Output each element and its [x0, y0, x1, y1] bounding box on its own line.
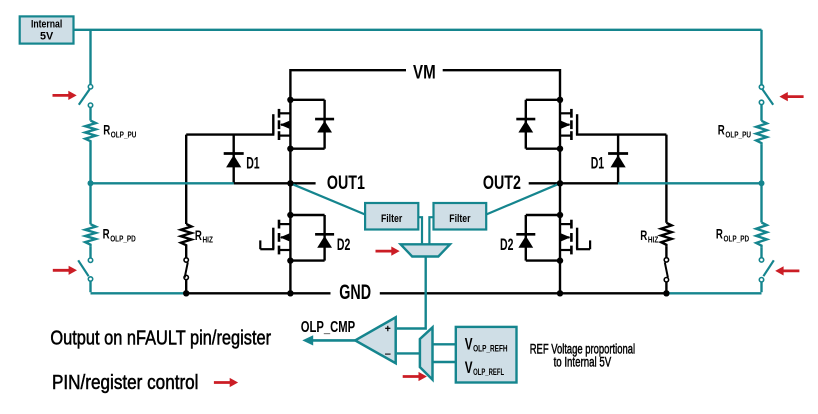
- svg-text:Output on nFAULT pin/register: Output on nFAULT pin/register: [50, 327, 271, 350]
- svg-text:R: R: [103, 227, 110, 242]
- svg-text:Filter: Filter: [381, 213, 403, 225]
- svg-text:5V: 5V: [40, 31, 54, 43]
- svg-text:OUT2: OUT2: [483, 172, 521, 194]
- svg-text:V: V: [465, 335, 473, 353]
- svg-text:D2: D2: [337, 236, 350, 254]
- svg-text:R: R: [195, 228, 202, 243]
- svg-text:R: R: [103, 123, 110, 138]
- svg-text:OLP_PU: OLP_PU: [725, 130, 751, 140]
- svg-text:HIZ: HIZ: [203, 235, 213, 245]
- svg-text:VM: VM: [413, 62, 436, 83]
- svg-text:D2: D2: [500, 236, 513, 254]
- svg-text:−: −: [385, 348, 391, 360]
- svg-text:to Internal 5V: to Internal 5V: [554, 354, 612, 369]
- svg-text:Internal: Internal: [31, 19, 62, 31]
- svg-text:Filter: Filter: [449, 213, 471, 225]
- svg-text:OLP_PU: OLP_PU: [111, 130, 137, 140]
- svg-text:R: R: [718, 123, 725, 138]
- svg-text:PIN/register control: PIN/register control: [52, 371, 199, 394]
- svg-text:R: R: [716, 227, 723, 242]
- svg-text:OLP_PD: OLP_PD: [724, 234, 750, 244]
- svg-text:R: R: [640, 228, 647, 243]
- svg-text:OLP_REFH: OLP_REFH: [473, 343, 508, 354]
- svg-text:+: +: [385, 324, 391, 335]
- svg-text:GND: GND: [339, 281, 371, 304]
- svg-text:D1: D1: [591, 155, 604, 173]
- svg-text:HIZ: HIZ: [648, 235, 658, 245]
- svg-text:OLP_REFL: OLP_REFL: [473, 367, 504, 378]
- svg-text:OUT1: OUT1: [327, 172, 365, 194]
- svg-text:OLP_PD: OLP_PD: [110, 234, 136, 244]
- svg-text:D1: D1: [246, 154, 259, 172]
- svg-text:V: V: [465, 359, 473, 377]
- svg-text:OLP_CMP: OLP_CMP: [301, 319, 355, 336]
